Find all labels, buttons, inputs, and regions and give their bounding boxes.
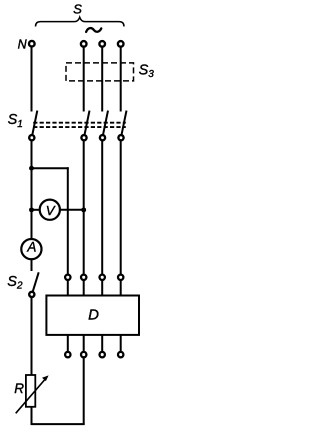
- terminal L3: [118, 41, 124, 47]
- switch S1 linkage dashed line lower: [33, 126, 126, 128]
- svg-text:V: V: [46, 203, 56, 218]
- D output terminal 2: [81, 352, 86, 357]
- wire N below S1 to ammeter: [31, 141, 33, 239]
- voltmeter U1 circle: [40, 200, 60, 220]
- rheostat R arrow: [16, 378, 46, 413]
- wire branch vertical to D input: [67, 167, 69, 274]
- terminal L2: [99, 41, 105, 47]
- svg-text:A: A: [26, 240, 36, 255]
- wire L1 terminal to S1: [83, 47, 85, 111]
- wire voltmeter left: [32, 209, 40, 211]
- wire L3 terminal to S1: [120, 47, 122, 111]
- wire R to bottom corner: [31, 407, 33, 426]
- svg-text:D: D: [88, 307, 99, 324]
- D output terminal 4: [118, 352, 123, 357]
- svg-text:S: S: [73, 1, 82, 16]
- bottom return wire: [31, 423, 85, 425]
- D input terminal stub L2: [101, 281, 103, 297]
- D output terminal stub 4: [120, 334, 122, 351]
- wire N terminal to S1: [31, 47, 33, 112]
- switch S1 pole L2 contact: [100, 135, 105, 140]
- switch S2 blade: [33, 272, 39, 291]
- D input terminal L2: [100, 275, 105, 280]
- switch S1 pole L1 blade: [85, 111, 90, 135]
- D input terminal stub N: [67, 281, 69, 297]
- wire ammeter to S2: [31, 260, 33, 271]
- ammeter A circle: [21, 239, 41, 259]
- brace (supply group): [36, 17, 125, 26]
- switch S1 pole N contact: [29, 135, 34, 140]
- switch S1 linkage dashed line upper: [33, 122, 126, 124]
- wire S2 to rheostat R: [31, 297, 33, 375]
- svg-text:S2: S2: [7, 274, 23, 292]
- svg-text:R: R: [14, 381, 24, 396]
- switch S1 pole L2 blade: [103, 111, 108, 135]
- junction node N branch: [29, 166, 34, 171]
- D output terminal stub 2: [83, 334, 85, 351]
- D input terminal stub L3: [120, 281, 122, 297]
- wire L3 below S1 to D: [120, 141, 122, 274]
- switch S1 pole L3 blade: [122, 111, 127, 135]
- svg-text:N: N: [18, 38, 28, 52]
- switch S1 pole L3 contact: [118, 135, 123, 140]
- wire voltmeter right: [60, 209, 83, 211]
- D output terminal stub 3: [101, 334, 103, 351]
- switch S3 dashed enclosure: [66, 63, 134, 81]
- D input terminal L1: [81, 275, 86, 280]
- wire bottom to D output: [83, 358, 85, 425]
- junction node voltmeter at N line: [29, 207, 34, 212]
- D input terminal L3: [118, 275, 123, 280]
- terminal L1: [81, 41, 87, 47]
- D output terminal 1: [65, 352, 70, 357]
- terminal N: [29, 41, 35, 47]
- wire L1 below S1 to D: [83, 141, 85, 274]
- rheostat R body: [26, 375, 35, 407]
- D output terminal stub 1: [67, 334, 69, 351]
- device D box: [46, 296, 139, 335]
- D input terminal N: [65, 275, 70, 280]
- svg-text:S3: S3: [139, 62, 155, 80]
- svg-text:S1: S1: [8, 112, 23, 130]
- D input terminal stub L1: [83, 281, 85, 297]
- switch S2 contact: [29, 292, 34, 297]
- switch S1 pole L1 contact: [81, 135, 86, 140]
- wire L2 terminal to S1: [101, 47, 103, 111]
- wire L2 below S1 to D: [101, 141, 103, 274]
- AC tilde symbol: [86, 28, 101, 32]
- D output terminal 3: [100, 352, 105, 357]
- switch S1 pole N blade: [32, 111, 37, 135]
- wire branch horizontal to D: [32, 167, 69, 169]
- junction node voltmeter at L1 line: [81, 207, 86, 212]
